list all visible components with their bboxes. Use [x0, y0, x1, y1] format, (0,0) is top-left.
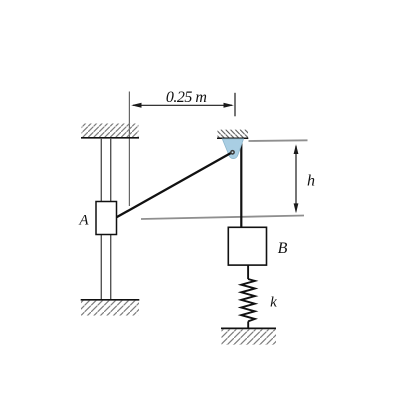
- ceiling support left (hatched): [81, 124, 139, 138]
- pulley bracket: [222, 139, 243, 159]
- ground support (hatched): [221, 328, 276, 345]
- svg-text:B: B: [278, 240, 288, 257]
- svg-text:A: A: [78, 213, 89, 229]
- rail right bar: [110, 138, 112, 300]
- ceiling support pulley (hatched): [217, 130, 248, 139]
- spring lower stem: [247, 321, 249, 328]
- extension line left: [128, 92, 130, 207]
- reference line top (gray): [249, 139, 308, 142]
- h dimension arrow: [294, 144, 299, 213]
- reference line bottom (gray): [141, 216, 304, 220]
- block A: [96, 202, 117, 235]
- dimension line with arrows (0.25 m): [131, 103, 234, 108]
- svg-text:h: h: [307, 173, 315, 190]
- rope vertical (pulley to B): [240, 141, 242, 228]
- rope diagonal (A to pulley): [117, 152, 233, 217]
- svg-text:k: k: [270, 295, 277, 311]
- svg-text:0.25 m: 0.25 m: [166, 89, 207, 106]
- rail left bar: [100, 138, 102, 300]
- pulley pin: [230, 150, 235, 155]
- floor support left (hatched): [81, 300, 140, 316]
- extension tick right: [234, 93, 236, 117]
- block B: [228, 227, 266, 265]
- spring k (zigzag): [241, 279, 255, 321]
- spring upper stem: [247, 265, 249, 279]
